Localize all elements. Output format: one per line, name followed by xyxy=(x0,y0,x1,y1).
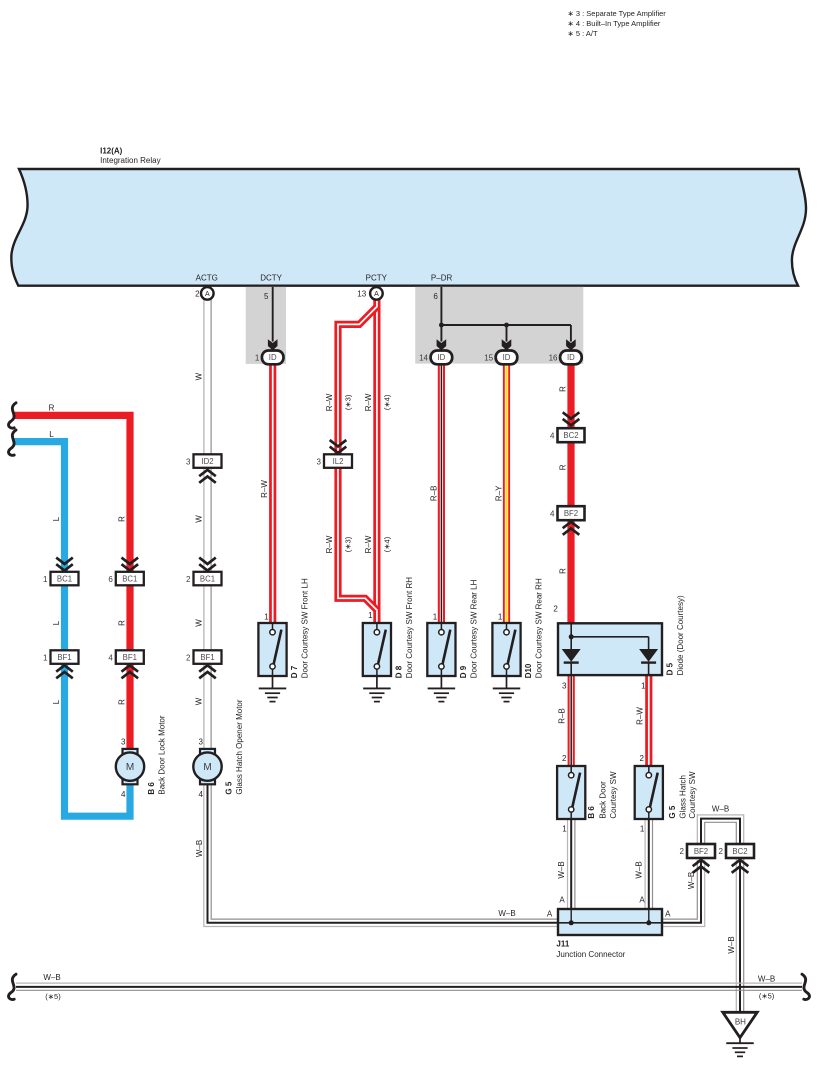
switch D10 Door Courtesy SW Rear RH xyxy=(492,623,520,676)
svg-text:A: A xyxy=(547,909,553,918)
svg-text:∗ 4 : Built–In Type Amplifier: ∗ 4 : Built–In Type Amplifier xyxy=(568,19,661,28)
diode element left (pin 3) xyxy=(562,649,581,663)
svg-text:3: 3 xyxy=(198,737,203,746)
pin 3 label of B6 motor xyxy=(121,737,126,746)
svg-text:D10: D10 xyxy=(524,663,533,678)
wire W-B (glass hatch courtesy SW to J11) xyxy=(645,819,652,909)
wire R-W (D5 pin1 to glass hatch courtesy SW) xyxy=(645,675,652,767)
chevron below BF1 pin4 xyxy=(122,665,139,678)
svg-text:W–B: W–B xyxy=(712,805,729,814)
svg-text:4: 4 xyxy=(108,653,113,662)
svg-text:ID: ID xyxy=(503,353,511,362)
legend note *4 Built-In Type Amplifier xyxy=(568,19,661,28)
ground stem D9 xyxy=(440,676,442,688)
wire W-B (J11 to BF2) xyxy=(662,860,705,927)
svg-text:R: R xyxy=(558,386,567,392)
svg-text:IL2: IL2 xyxy=(333,457,344,466)
ground stem D8 xyxy=(376,676,378,688)
arrow into ID pin14 xyxy=(437,339,447,350)
label L below BF1 xyxy=(52,699,61,704)
label B6 Back Door Lock Motor xyxy=(147,715,167,794)
svg-text:2: 2 xyxy=(553,605,558,614)
svg-text:W–B: W–B xyxy=(687,872,696,889)
pin 1 label of G5 switch xyxy=(640,824,645,833)
chevron below BC2 pin2 xyxy=(732,860,749,873)
svg-text:A: A xyxy=(559,896,565,905)
motor G5 Glass Hatch Opener Motor xyxy=(193,749,221,784)
wire break squiggle on L feed xyxy=(9,430,16,455)
svg-text:BC2: BC2 xyxy=(563,431,578,440)
chevron below BF1 pin1 xyxy=(56,665,73,678)
label R-W (*3) upper xyxy=(325,393,353,411)
chevron above BC1 pin2 xyxy=(199,558,216,571)
svg-text:DCTY: DCTY xyxy=(260,274,282,283)
svg-text:BF1: BF1 xyxy=(123,653,137,662)
wire break squiggle bus right xyxy=(802,974,809,999)
svg-text:2: 2 xyxy=(640,754,645,763)
svg-text:Courtesy SW: Courtesy SW xyxy=(688,771,697,819)
svg-text:(∗5): (∗5) xyxy=(45,992,61,1001)
svg-text:(∗4): (∗4) xyxy=(382,536,391,552)
ground symbol D7 xyxy=(259,688,287,701)
wire W-B bus (*5) xyxy=(16,983,802,990)
label G5 Glass Hatch Courtesy SW xyxy=(668,771,697,819)
ground symbol D10 xyxy=(493,688,521,701)
svg-text:1: 1 xyxy=(255,353,260,362)
chevron above BC2 pin4 xyxy=(563,412,580,425)
label R-W (*3) lower xyxy=(325,535,353,553)
connector ID pin 15 xyxy=(484,351,517,365)
svg-text:I12(A): I12(A) xyxy=(100,147,123,156)
label W-B bus right xyxy=(758,974,775,1000)
svg-text:15: 15 xyxy=(484,353,493,362)
chevron above BC1 pin1 xyxy=(56,558,73,571)
svg-text:BH: BH xyxy=(735,1017,746,1026)
svg-text:1: 1 xyxy=(640,824,645,833)
svg-text:Glass Hatch: Glass Hatch xyxy=(679,775,688,819)
label R-B on D5 pin3 wire xyxy=(558,708,567,724)
svg-text:BC1: BC1 xyxy=(57,574,72,583)
svg-text:A: A xyxy=(665,909,671,918)
svg-text:∗ 3 : Separate Type Amplifier: ∗ 3 : Separate Type Amplifier xyxy=(568,9,667,18)
svg-text:2: 2 xyxy=(195,289,200,298)
pin 4 label of B6 motor xyxy=(121,790,126,799)
svg-text:W: W xyxy=(194,515,203,523)
pin 1 label of D5 xyxy=(641,681,646,690)
label D7 xyxy=(290,578,310,678)
svg-text:Integration Relay: Integration Relay xyxy=(100,156,160,165)
relay pin label DCTY xyxy=(260,274,282,283)
svg-text:R: R xyxy=(117,516,126,522)
label D5 Diode (Door Courtesy) xyxy=(666,595,686,675)
svg-text:R: R xyxy=(117,620,126,626)
wire R feed (back door lock motor pin3) xyxy=(14,415,130,749)
connector BC1 pin 6 xyxy=(108,572,143,586)
ground stem D10 xyxy=(506,676,508,688)
svg-text:3: 3 xyxy=(121,737,126,746)
ground symbol below BH xyxy=(726,1043,754,1056)
svg-text:ID: ID xyxy=(269,353,277,362)
chevron below BF1 pin2 xyxy=(199,665,216,678)
label R-B on pin14 wire xyxy=(429,486,438,502)
svg-text:3: 3 xyxy=(562,681,567,690)
svg-text:D 8: D 8 xyxy=(394,665,403,678)
label D9 xyxy=(459,579,479,678)
wire R-W *3 branch (PCTY to IL2 to D8) xyxy=(338,307,377,610)
svg-text:Door Courtesy SW Front RH: Door Courtesy SW Front RH xyxy=(405,577,414,679)
switch B6 Back Door Courtesy SW xyxy=(557,766,585,819)
label R above BC1 xyxy=(117,516,126,522)
junction connector J11 body xyxy=(558,909,662,935)
svg-text:A: A xyxy=(639,896,645,905)
svg-text:G 5: G 5 xyxy=(668,805,677,818)
wire break squiggle bus left xyxy=(9,974,16,999)
svg-text:1: 1 xyxy=(264,613,269,622)
relay pin 2 connector circle A (ACTG) xyxy=(195,287,213,300)
svg-text:W: W xyxy=(194,619,203,627)
svg-text:BF2: BF2 xyxy=(694,847,708,856)
wire R (ID pin16 to diode D5) xyxy=(567,364,574,624)
label L on feed wire xyxy=(49,430,54,439)
label W above BC1 xyxy=(194,515,203,523)
wire R-W *4 (PCTY pin13 to D8) xyxy=(373,300,380,624)
svg-text:14: 14 xyxy=(419,353,428,362)
connector BF2 pin 2 xyxy=(680,844,715,858)
integration relay I12(A) label xyxy=(100,147,160,166)
svg-text:BC1: BC1 xyxy=(200,574,215,583)
connector BF1 pin 4 xyxy=(108,650,143,664)
label W below BF1 xyxy=(194,697,203,705)
wire R-W (DCTY pin5 ID to D7) xyxy=(269,364,276,624)
pin 4 label of G5 motor xyxy=(198,790,203,799)
label J11 Junction Connector xyxy=(556,940,625,959)
connector BF1 pin 1 xyxy=(43,650,78,664)
label W-B on BF2-BC2 loop xyxy=(712,805,729,814)
wire break squiggle on R feed xyxy=(9,403,16,428)
svg-text:L: L xyxy=(52,620,61,625)
svg-text:1: 1 xyxy=(498,613,503,622)
label R above BF1 xyxy=(117,620,126,626)
svg-text:R–W: R–W xyxy=(260,480,269,498)
shield box DCTY xyxy=(246,287,286,364)
svg-text:Back Door Lock Motor: Back Door Lock Motor xyxy=(158,715,167,794)
diode element right (pin 1) xyxy=(639,649,658,663)
pin 1 label of B6 switch xyxy=(562,824,567,833)
label R between BC2 BF2 xyxy=(558,464,567,470)
svg-text:1: 1 xyxy=(43,575,48,584)
svg-text:BC2: BC2 xyxy=(732,847,747,856)
label W-B on back door courtesy SW wire xyxy=(557,861,566,878)
label D8 xyxy=(394,577,414,679)
connector BC2 pin 2 xyxy=(719,844,754,858)
svg-text:R–W: R–W xyxy=(325,535,334,553)
svg-text:4: 4 xyxy=(121,790,126,799)
connector ID pin 14 xyxy=(419,351,452,365)
ground BH (body ground) xyxy=(723,1012,757,1043)
svg-text:W: W xyxy=(194,372,203,380)
relay pin 5 number (DCTY) xyxy=(264,292,269,301)
svg-text:A: A xyxy=(205,291,210,298)
svg-text:Door Courtesy SW Front LH: Door Courtesy SW Front LH xyxy=(301,578,310,678)
svg-text:1: 1 xyxy=(43,653,48,662)
svg-text:(∗3): (∗3) xyxy=(344,394,353,410)
pin 3 label of G5 motor xyxy=(198,737,203,746)
wire stem DCTY pin5 xyxy=(272,287,274,342)
diode D5 body (Door Courtesy) xyxy=(558,623,662,675)
svg-text:1: 1 xyxy=(562,824,567,833)
svg-text:6: 6 xyxy=(433,292,438,301)
wire L feed (back door lock motor pin4) xyxy=(14,442,130,817)
label R below BF2 xyxy=(558,568,567,574)
label W above ID2 xyxy=(194,372,203,380)
wire W-B (BC2 to BH ground) xyxy=(736,859,743,1013)
svg-text:R: R xyxy=(117,699,126,705)
svg-text:W–B: W–B xyxy=(498,909,515,918)
svg-text:4: 4 xyxy=(550,509,555,518)
label R below BF1 xyxy=(117,699,126,705)
svg-text:L: L xyxy=(52,699,61,704)
wire R-B (D5 pin3 to back door courtesy SW) xyxy=(568,675,575,767)
svg-text:ID: ID xyxy=(567,353,575,362)
legend note *3 Separate Type Amplifier xyxy=(568,9,667,18)
svg-text:W–B: W–B xyxy=(758,974,775,983)
svg-text:BC1: BC1 xyxy=(122,574,137,583)
connector IL2 pin 3 xyxy=(317,454,352,468)
svg-text:(∗4): (∗4) xyxy=(382,394,391,410)
relay pin 13 connector circle A (PCTY) xyxy=(357,287,382,300)
label R-W (*4) upper xyxy=(364,393,391,411)
svg-text:R–Y: R–Y xyxy=(494,485,503,501)
switch D7 Door Courtesy SW Front LH xyxy=(258,623,286,676)
arrow into ID pin15 xyxy=(502,339,512,350)
chevron below ID2 xyxy=(199,470,216,483)
svg-text:D 7: D 7 xyxy=(290,665,299,678)
svg-text:ACTG: ACTG xyxy=(196,274,218,283)
wire W (ACTG pin2 to glass hatch opener motor) xyxy=(204,300,211,749)
svg-text:J11: J11 xyxy=(556,940,569,949)
relay pin label PCTY xyxy=(366,274,388,283)
label B6 Back Door Courtesy SW xyxy=(587,771,618,819)
label L above BC1 xyxy=(52,516,61,521)
label R-W (*4) lower xyxy=(364,535,391,553)
svg-text:(∗5): (∗5) xyxy=(759,992,775,1001)
connector BC1 pin 1 xyxy=(43,572,78,586)
svg-text:L: L xyxy=(49,430,54,439)
svg-text:W–B: W–B xyxy=(557,861,566,878)
label W-B bus left xyxy=(43,973,61,1001)
svg-text:2: 2 xyxy=(562,754,567,763)
wire R-B (ID pin14 to D9) xyxy=(438,364,445,624)
svg-text:Door Courtesy SW Rear RH: Door Courtesy SW Rear RH xyxy=(535,578,544,678)
pin 1 label of D9 xyxy=(433,613,438,622)
svg-text:ID: ID xyxy=(437,353,445,362)
label L above BF1 xyxy=(52,620,61,625)
pin 1 label of D10 xyxy=(498,613,503,622)
svg-text:BF1: BF1 xyxy=(57,653,71,662)
ground symbol D9 xyxy=(428,688,456,701)
label W-B on J11 feed wire xyxy=(498,909,515,918)
svg-text:BF1: BF1 xyxy=(200,653,214,662)
chevron below BF2 pin2 xyxy=(693,860,710,873)
svg-text:4: 4 xyxy=(550,431,555,440)
connector ID pin 1 xyxy=(255,351,284,365)
svg-text:4: 4 xyxy=(198,790,203,799)
svg-text:B 6: B 6 xyxy=(587,806,596,819)
label R above BC2 xyxy=(558,386,567,392)
node A junction dot right in J11 xyxy=(646,920,651,925)
pin A labels of J11 xyxy=(547,896,671,919)
label R-W on D5 pin1 wire xyxy=(635,707,644,725)
node A junction dot left in J11 xyxy=(569,920,574,925)
svg-text:1: 1 xyxy=(433,613,438,622)
label R-W on DCTY wire xyxy=(260,480,269,498)
motor B6 Back Door Lock Motor xyxy=(116,749,144,784)
svg-text:R–W: R–W xyxy=(364,393,373,411)
svg-text:D 9: D 9 xyxy=(459,665,468,678)
svg-text:B 6: B 6 xyxy=(147,782,156,795)
connector BC1 pin 2 xyxy=(186,572,221,586)
shield box P-DR xyxy=(415,287,583,364)
svg-text:Diode (Door Courtesy): Diode (Door Courtesy) xyxy=(676,595,685,675)
svg-text:W–B: W–B xyxy=(727,936,736,953)
svg-text:Back Door: Back Door xyxy=(599,781,608,819)
svg-text:R: R xyxy=(558,464,567,470)
svg-text:6: 6 xyxy=(108,575,113,584)
svg-text:2: 2 xyxy=(186,575,191,584)
integration relay I12(A) body xyxy=(11,169,806,286)
svg-text:W–B: W–B xyxy=(635,861,644,878)
svg-text:3: 3 xyxy=(186,457,191,466)
svg-text:(∗3): (∗3) xyxy=(344,536,353,552)
svg-text:R–B: R–B xyxy=(429,486,438,502)
svg-text:ID2: ID2 xyxy=(201,457,213,466)
label W above BF1 xyxy=(194,619,203,627)
legend note *5 A/T xyxy=(568,29,598,38)
ground stem D7 xyxy=(272,676,274,688)
pin 2 label of B6 switch xyxy=(562,754,567,763)
svg-text:R: R xyxy=(558,568,567,574)
svg-text:13: 13 xyxy=(357,289,366,298)
wire W-B loop (BF2 to BC2) xyxy=(697,815,743,845)
svg-text:2: 2 xyxy=(186,653,191,662)
label R-Y on pin15 wire xyxy=(494,485,503,501)
svg-text:R–B: R–B xyxy=(558,708,567,724)
label R on feed wire xyxy=(49,404,55,413)
svg-text:R–W: R–W xyxy=(325,393,334,411)
connector ID pin 16 xyxy=(549,351,582,365)
relay pin label ACTG xyxy=(196,274,218,283)
svg-text:3: 3 xyxy=(317,457,322,466)
arrow into ID pin1 xyxy=(268,339,278,350)
wire W-B (back door courtesy SW to J11) xyxy=(568,819,575,909)
label W-B on J11-BF2 wire xyxy=(687,872,696,889)
chevron below BF2 pin4 xyxy=(563,522,580,535)
svg-text:L: L xyxy=(52,516,61,521)
arrow into ID pin16 xyxy=(566,339,576,350)
pin 2 label of G5 switch xyxy=(640,754,645,763)
svg-text:PCTY: PCTY xyxy=(366,274,388,283)
connector BF1 pin 2 xyxy=(186,650,221,664)
chevron above IL2 xyxy=(330,440,347,453)
pin 3 label of D5 xyxy=(562,681,567,690)
ground symbol D8 xyxy=(363,688,391,701)
relay pin label P-DR xyxy=(431,274,453,283)
connector ID2 pin 3 xyxy=(186,454,221,468)
connector BF2 pin 4 xyxy=(550,506,584,520)
svg-text:BF2: BF2 xyxy=(564,509,578,518)
switch D8 Door Courtesy SW Front RH xyxy=(363,623,391,676)
label G5 Glass Hatch Opener Motor xyxy=(224,699,244,794)
svg-text:Courtesy SW: Courtesy SW xyxy=(609,771,618,819)
svg-text:W: W xyxy=(194,697,203,705)
svg-text:2: 2 xyxy=(719,847,724,856)
relay pin 6 number (P-DR) xyxy=(433,292,438,301)
label W-B on glass hatch courtesy SW wire xyxy=(635,861,644,878)
svg-text:5: 5 xyxy=(264,292,269,301)
chevron above BC1 pin6 xyxy=(122,558,139,571)
svg-text:2: 2 xyxy=(680,847,685,856)
connector BC2 pin 4 xyxy=(550,428,584,442)
svg-text:Junction Connector: Junction Connector xyxy=(556,950,625,959)
svg-text:G 5: G 5 xyxy=(224,781,233,794)
svg-text:P–DR: P–DR xyxy=(431,274,453,283)
svg-text:W–B: W–B xyxy=(195,840,204,857)
switch G5 Glass Hatch Courtesy SW xyxy=(635,766,663,819)
svg-text:M: M xyxy=(203,762,211,773)
svg-text:M: M xyxy=(126,762,134,773)
svg-text:16: 16 xyxy=(549,353,558,362)
wire stem P-DR pin6 with branch node xyxy=(439,287,571,342)
svg-text:A: A xyxy=(374,291,379,298)
svg-text:1: 1 xyxy=(368,611,373,620)
label D10 xyxy=(524,578,544,678)
svg-text:Door Courtesy SW Rear LH: Door Courtesy SW Rear LH xyxy=(469,579,478,678)
svg-text:W–B: W–B xyxy=(43,973,60,982)
wire R-Y (ID pin15 to D10) xyxy=(503,364,510,624)
svg-text:R–W: R–W xyxy=(635,707,644,725)
pin 1 label of D7 xyxy=(264,613,269,622)
label W-B above BH ground xyxy=(727,936,736,953)
svg-text:R: R xyxy=(49,404,55,413)
pin 1 label of D8 xyxy=(368,611,373,620)
svg-text:∗ 5 : A/T: ∗ 5 : A/T xyxy=(568,29,598,38)
wire W-B (glass hatch opener motor to J11) xyxy=(204,784,558,926)
svg-text:R–W: R–W xyxy=(364,535,373,553)
switch D9 Door Courtesy SW Rear LH xyxy=(427,623,455,676)
label W-B below glass hatch opener motor xyxy=(195,840,204,857)
pin 2 label of D5 xyxy=(553,605,558,614)
svg-text:D 5: D 5 xyxy=(666,662,675,675)
svg-text:1: 1 xyxy=(641,681,646,690)
svg-text:Glass Hatch Opener Motor: Glass Hatch Opener Motor xyxy=(235,699,244,794)
